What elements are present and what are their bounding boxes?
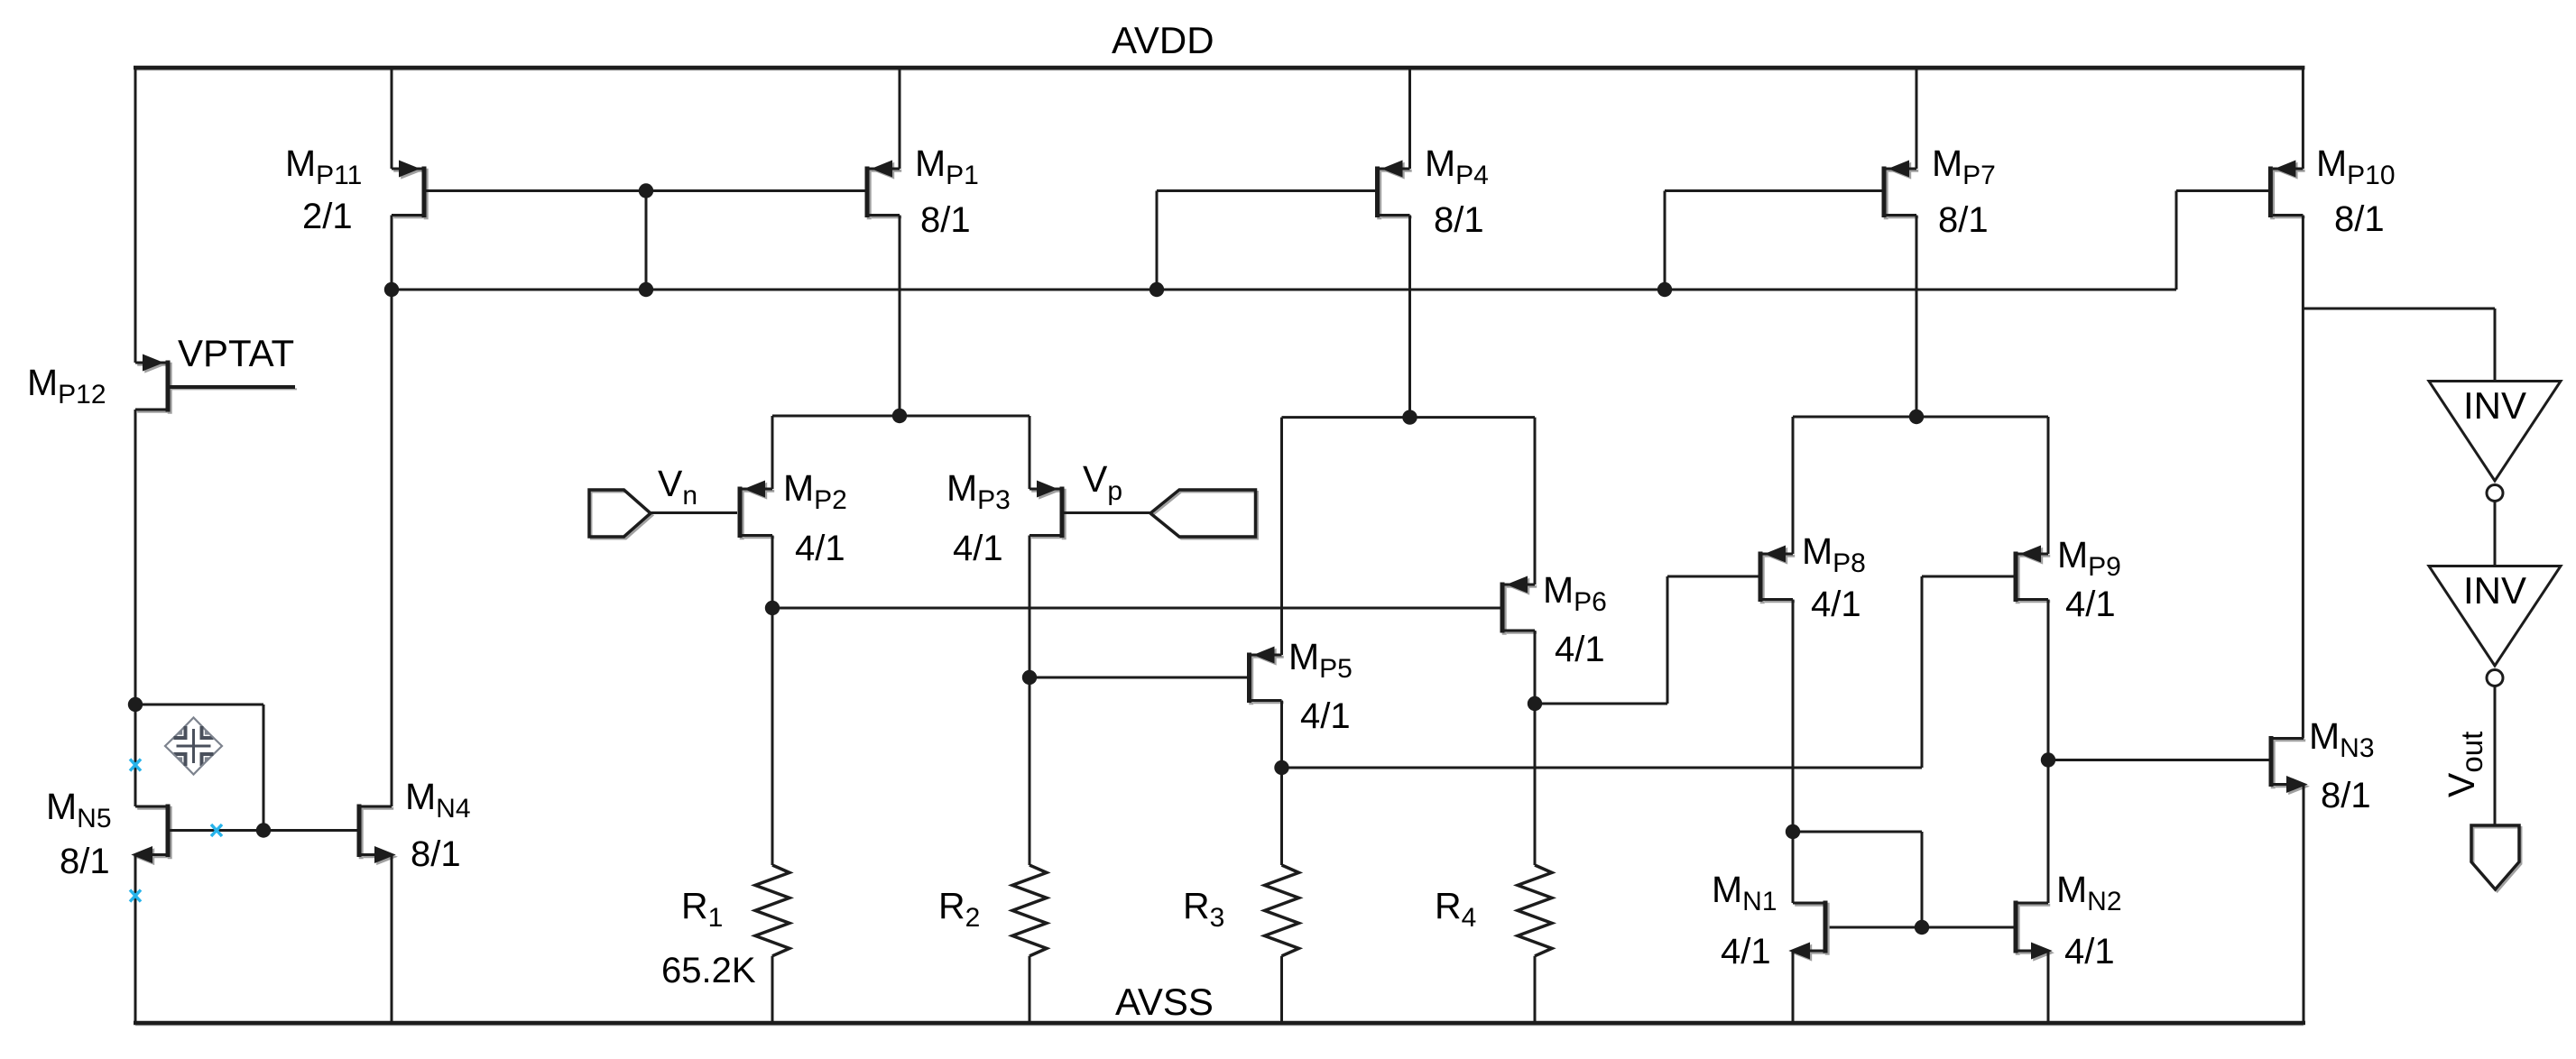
value 4/1 of MP3 (953, 529, 1003, 568)
svg-text:8/1: 8/1 (411, 834, 461, 874)
wire MN2 source to AVSS (2047, 951, 2050, 1023)
wire MP2 source drop (771, 416, 774, 489)
wire MP5-MP6 top rail (1282, 416, 1536, 419)
value 4/1 of MN1 (1721, 932, 1771, 972)
wire MP5 drain to MP9 gate (1282, 576, 2014, 768)
transistor MP9 (2016, 547, 2050, 603)
label MP1 (915, 143, 979, 190)
wire MP1 drain to diff pair (899, 216, 901, 417)
wire MP9 drain to MN3 gate (2048, 759, 2269, 761)
label MN1 (1712, 869, 1777, 916)
annotation marker x1 (130, 760, 141, 771)
wire MP10 gate riser (2176, 191, 2268, 290)
label MP8 (1802, 530, 1866, 578)
wire AVDD left drop to MP12 source (134, 66, 137, 363)
svg-text:8/1: 8/1 (1434, 200, 1484, 240)
transistor MN1 (1791, 901, 1827, 961)
svg-text:4/1: 4/1 (2065, 585, 2116, 624)
wire AVDD drop to MP11 source (391, 68, 393, 169)
label MP2 (783, 467, 847, 515)
node junction on MN5-MN4 gate bus (256, 823, 271, 837)
value 4/1 of MP6 (1555, 630, 1605, 669)
node MP2 drain junction (765, 601, 780, 615)
label VPTAT node (178, 332, 294, 374)
label MP7 (1932, 143, 1996, 190)
wire INV2 to Vout port (2494, 686, 2497, 826)
value 4/1 of MP5 (1300, 696, 1351, 736)
transistor MN4 (359, 805, 395, 864)
label MP4 (1425, 143, 1489, 190)
svg-text:4/1: 4/1 (1811, 585, 1861, 624)
wire MN3 source to AVSS (2303, 785, 2305, 1024)
label MP9 (2057, 534, 2121, 582)
label MP12 (27, 362, 106, 410)
transistor MP4 (1378, 161, 1412, 219)
svg-text:4/1: 4/1 (795, 529, 845, 568)
inverter INV2 bubble (2487, 670, 2503, 686)
power rail AVSS (134, 1023, 2305, 1025)
wire MN1-MN2 gate bus (1827, 926, 2015, 929)
wire MN1 source to AVSS (1792, 951, 1795, 1023)
value 8/1 of MP1 (920, 200, 971, 240)
wire INV1 to INV2 (2494, 502, 2497, 566)
wire MP8 source drop (1792, 417, 1795, 554)
wire VPTAT gate stub (171, 387, 298, 389)
node MP5 drain junction (1274, 760, 1288, 775)
wire AVDD drop to MP1 source (899, 68, 901, 169)
wire MP3 gate to Vp (1065, 511, 1151, 514)
svg-text:4/1: 4/1 (1555, 630, 1605, 669)
transistor MN2 (2016, 901, 2052, 961)
wire gate row MP11 to MP1 (427, 189, 865, 192)
wire MP5 source drop (1280, 418, 1283, 655)
wire MP2 drain to R1 (771, 536, 774, 866)
power rail AVDD (134, 68, 2304, 69)
port Vout output (2471, 825, 2521, 891)
node gate row junction (639, 183, 653, 198)
wire MP6 drain to MP8 gate (1535, 576, 1759, 704)
label R1 (681, 885, 723, 933)
label MP10 (2316, 143, 2396, 190)
resistor R1 (755, 865, 789, 956)
label MN3 (2309, 715, 2375, 763)
wire MN5 source to AVSS (134, 855, 137, 1024)
node MP8 drain junction to MN gate bus (1786, 824, 1800, 839)
wire MP9 drain to MN2 drain (2047, 600, 2050, 904)
transistor MP7 (1884, 161, 1918, 219)
svg-text:4/1: 4/1 (1300, 696, 1351, 736)
wire MP8 drain to MN1 drain (1792, 600, 1795, 904)
value 8/1 of MP7 (1938, 200, 1989, 240)
value 8/1 of MN5 (60, 842, 110, 881)
wire AVDD drop to MP7 source (1916, 68, 1918, 169)
wire R2 to AVSS (1029, 956, 1031, 1023)
svg-text:8/1: 8/1 (60, 842, 110, 881)
svg-text:8/1: 8/1 (1938, 200, 1989, 240)
node jumper junction on bias bus (639, 282, 653, 297)
svg-text:4/1: 4/1 (2064, 932, 2115, 972)
transistor MP6 (1502, 577, 1537, 635)
node MP1 drain junction (892, 409, 907, 423)
node MP4 drain junction (1402, 410, 1417, 424)
wire diff pair top rail (772, 415, 1029, 418)
transistor MP5 (1250, 648, 1284, 704)
wire MP10 drain to MN3 drain (2302, 216, 2304, 739)
value 8/1 of MN3 (2321, 776, 2371, 815)
svg-text:8/1: 8/1 (2321, 776, 2371, 815)
inverter INV1 (2429, 382, 2561, 482)
wire MP11 drain to bias bus (391, 216, 393, 290)
wire R3 to AVSS (1280, 956, 1283, 1023)
node MP7 gate riser junction (1657, 282, 1672, 297)
wire MP12 drain down left rail (134, 410, 137, 806)
label MP3 (946, 467, 1011, 515)
wire AVDD drop to MP10 source (2302, 68, 2304, 169)
label R2 (938, 885, 980, 933)
node MP3 drain junction (1022, 670, 1037, 685)
svg-text:AVDD: AVDD (1112, 19, 1214, 61)
label R4 (1435, 885, 1476, 933)
value 8/1 of MP4 (1434, 200, 1484, 240)
resistor R2 (1012, 865, 1047, 956)
value 4/1 of MP2 (795, 529, 845, 568)
label MN4 (405, 776, 471, 824)
svg-text:65.2K: 65.2K (661, 951, 756, 990)
wire MP7 gate riser (1665, 191, 1882, 290)
svg-text:4/1: 4/1 (953, 529, 1003, 568)
node junction on MN1-MN2 gate bus (1915, 920, 1929, 935)
wire Vn to MP2 gate (651, 511, 737, 514)
wire jumper gate row to bias bus (645, 191, 648, 290)
value 4/1 of MP8 (1811, 585, 1861, 624)
value 4/1 of MN2 (2064, 932, 2115, 972)
wire MP4 drain down (1408, 216, 1411, 418)
wire MN5-MN4 gate bus (171, 829, 357, 832)
label MN2 (2056, 869, 2122, 916)
label MN5 (46, 786, 112, 833)
node MP6 drain junction (1528, 696, 1542, 711)
resistor R3 (1265, 865, 1299, 956)
node MP7 drain junction (1909, 410, 1924, 424)
transistor MN3 (2271, 736, 2307, 794)
transistor MP11 (392, 161, 426, 219)
label Vn (658, 463, 697, 511)
wire MP6 source drop (1534, 418, 1537, 585)
transistor MP1 (867, 161, 901, 219)
label AVDD (1112, 19, 1214, 61)
wire R4 to AVSS (1534, 956, 1537, 1023)
svg-text:8/1: 8/1 (2334, 199, 2385, 239)
value 8/1 of MP10 (2334, 199, 2385, 239)
label Vout (2441, 732, 2488, 797)
inverter INV1 bubble (2487, 485, 2503, 502)
svg-text:INV: INV (2463, 384, 2526, 427)
svg-text:4/1: 4/1 (1721, 932, 1771, 972)
value 2/1 of MP11 (302, 197, 353, 236)
value 4/1 of MP9 (2065, 585, 2116, 624)
svg-text:INV: INV (2463, 569, 2526, 612)
label MP6 (1543, 569, 1607, 617)
wire MP2 drain to MP6 gate (772, 607, 1500, 610)
annotation marker x3 (130, 890, 141, 902)
wire AVDD drop to MP4 source (1408, 68, 1411, 169)
wire bias bus (392, 289, 2176, 291)
wire MN4 source to AVSS (391, 855, 393, 1024)
label MP5 (1288, 636, 1353, 684)
label MP11 (285, 143, 362, 190)
node junction left rail to MN5 gate (128, 697, 143, 712)
svg-text:AVSS: AVSS (1115, 981, 1214, 1023)
node MP4 gate riser junction (1150, 282, 1164, 297)
wire MP9 source drop (2047, 417, 2050, 554)
label AVSS (1115, 981, 1214, 1023)
wire MP8-MP9 top rail (1793, 416, 2048, 419)
wire MP4 gate riser (1157, 191, 1378, 290)
svg-text:2/1: 2/1 (302, 197, 353, 236)
label R3 (1183, 885, 1224, 933)
wire MP5 drain to R3 (1280, 701, 1283, 866)
annotation move cursor (165, 718, 222, 775)
svg-text:8/1: 8/1 (920, 200, 971, 240)
wire junction to MN5-MN4 gate bus (135, 704, 263, 831)
wire MP3 drain to MP5 gate (1029, 677, 1248, 679)
wire MP6 drain to R4 (1534, 631, 1537, 865)
label Vp (1083, 458, 1122, 506)
inverter INV2 (2429, 566, 2561, 667)
transistor MP10 (2270, 161, 2304, 219)
port Vn input (589, 490, 652, 539)
transistor MP8 (1760, 547, 1795, 603)
annotation marker x2 (211, 824, 222, 836)
value 8/1 of MN4 (411, 834, 461, 874)
wire output tap to inverter (2303, 308, 2495, 382)
wire MP3 drain to R2 (1029, 536, 1031, 866)
wire MP3 source drop (1029, 416, 1031, 489)
wire MP7 drain down (1916, 216, 1918, 418)
transistor MP12 (135, 355, 170, 414)
port Vp input (1150, 490, 1258, 539)
wire MN1-MN2 gate tie (1793, 832, 1922, 927)
transistor MP2 (740, 482, 774, 539)
node MP11 drain junction on bias bus (384, 282, 399, 297)
resistor R4 (1518, 865, 1552, 956)
transistor MP3 (1029, 482, 1064, 539)
node MP9 drain junction (2041, 752, 2055, 767)
wire MN4 drain up to bias bus (391, 290, 393, 806)
svg-text:VPTAT: VPTAT (178, 332, 294, 374)
value 65.2K of R1 (661, 951, 756, 990)
wire R1 to AVSS (771, 956, 774, 1023)
transistor MN5 (134, 805, 170, 864)
